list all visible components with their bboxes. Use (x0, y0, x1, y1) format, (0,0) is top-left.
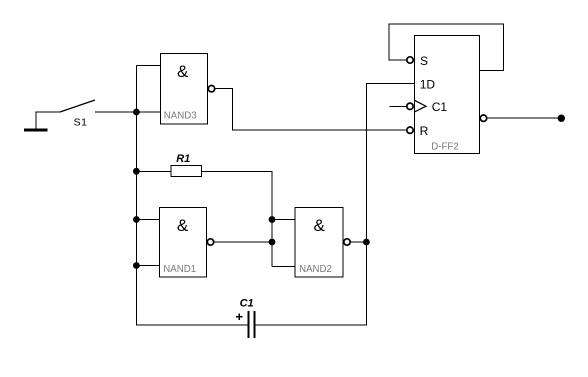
svg-text:NAND2: NAND2 (299, 264, 332, 275)
svg-text:&: & (314, 216, 326, 235)
svg-text:D-FF2: D-FF2 (431, 142, 458, 153)
svg-text:R: R (420, 124, 429, 138)
svg-text:C1: C1 (432, 100, 448, 114)
svg-text:NAND1: NAND1 (163, 264, 196, 275)
svg-text:NAND3: NAND3 (164, 110, 197, 121)
svg-text:S: S (420, 54, 428, 68)
svg-text:S1: S1 (74, 116, 88, 128)
svg-text:&: & (177, 62, 189, 81)
svg-text:1D: 1D (420, 78, 436, 92)
svg-text:&: & (177, 216, 189, 235)
svg-text:R1: R1 (176, 153, 190, 165)
svg-text:C1: C1 (240, 297, 254, 309)
